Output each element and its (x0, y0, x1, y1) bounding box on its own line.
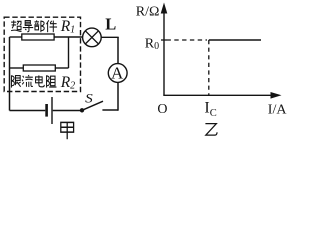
wire: right vertical lower (corner to ammeter) (117, 82, 119, 110)
svg-text:R2: R2 (60, 74, 75, 92)
wire: bottom to battery (10, 110, 46, 112)
wire: ammeter to top corner (117, 37, 119, 64)
dashed level line to step (167, 39, 208, 41)
ammeter A (108, 64, 127, 83)
svg-text:O: O (157, 102, 167, 117)
y-axis (163, 6, 165, 95)
wire: battery to switch (53, 110, 82, 112)
wire: left vertical to R2 (10, 67, 24, 69)
wire: left vertical (9, 37, 11, 111)
svg-text:IC: IC (204, 100, 216, 120)
x-axis arrowhead (271, 92, 282, 99)
battery cell: long thin positive plate (51, 97, 52, 124)
wire: R2 to junction (55, 67, 68, 69)
svg-text:R1: R1 (60, 18, 75, 36)
wire: lamp to right corner (101, 36, 119, 38)
wire: R1 to lamp (54, 36, 83, 38)
svg-text:S: S (85, 92, 94, 106)
caption 乙 (205, 124, 217, 136)
wire: left vertical to R1 (10, 36, 22, 38)
resistor R1 (rectangle) (22, 34, 54, 40)
resistor R2 (rectangle) (23, 65, 55, 71)
wire: switch contact to right corner (102, 109, 118, 111)
lamp L (circle with cross) (83, 28, 102, 47)
svg-text:L: L (105, 14, 116, 33)
switch pivot dot (80, 108, 84, 112)
tick at R0 (161, 39, 167, 41)
label 超导部件 (superconducting component) (11, 20, 57, 32)
dashed vertical at Ic (208, 40, 210, 95)
switch blade (82, 101, 103, 110)
label 限流电阻 (current-limiting resistor) (11, 75, 56, 88)
caption 甲 (61, 122, 74, 139)
svg-text:R0: R0 (145, 36, 159, 52)
svg-text:R/Ω: R/Ω (136, 5, 160, 20)
x-axis (163, 94, 272, 96)
wire: right parallel junction vertical (68, 37, 70, 68)
dashed enclosure box (4, 17, 80, 91)
solid graph line R=R0 for I>Ic (209, 39, 261, 41)
battery cell: short thick negative plate (45, 104, 48, 117)
y-axis arrowhead (161, 3, 168, 14)
svg-text:I/A: I/A (268, 102, 288, 117)
svg-text:A: A (111, 64, 124, 83)
